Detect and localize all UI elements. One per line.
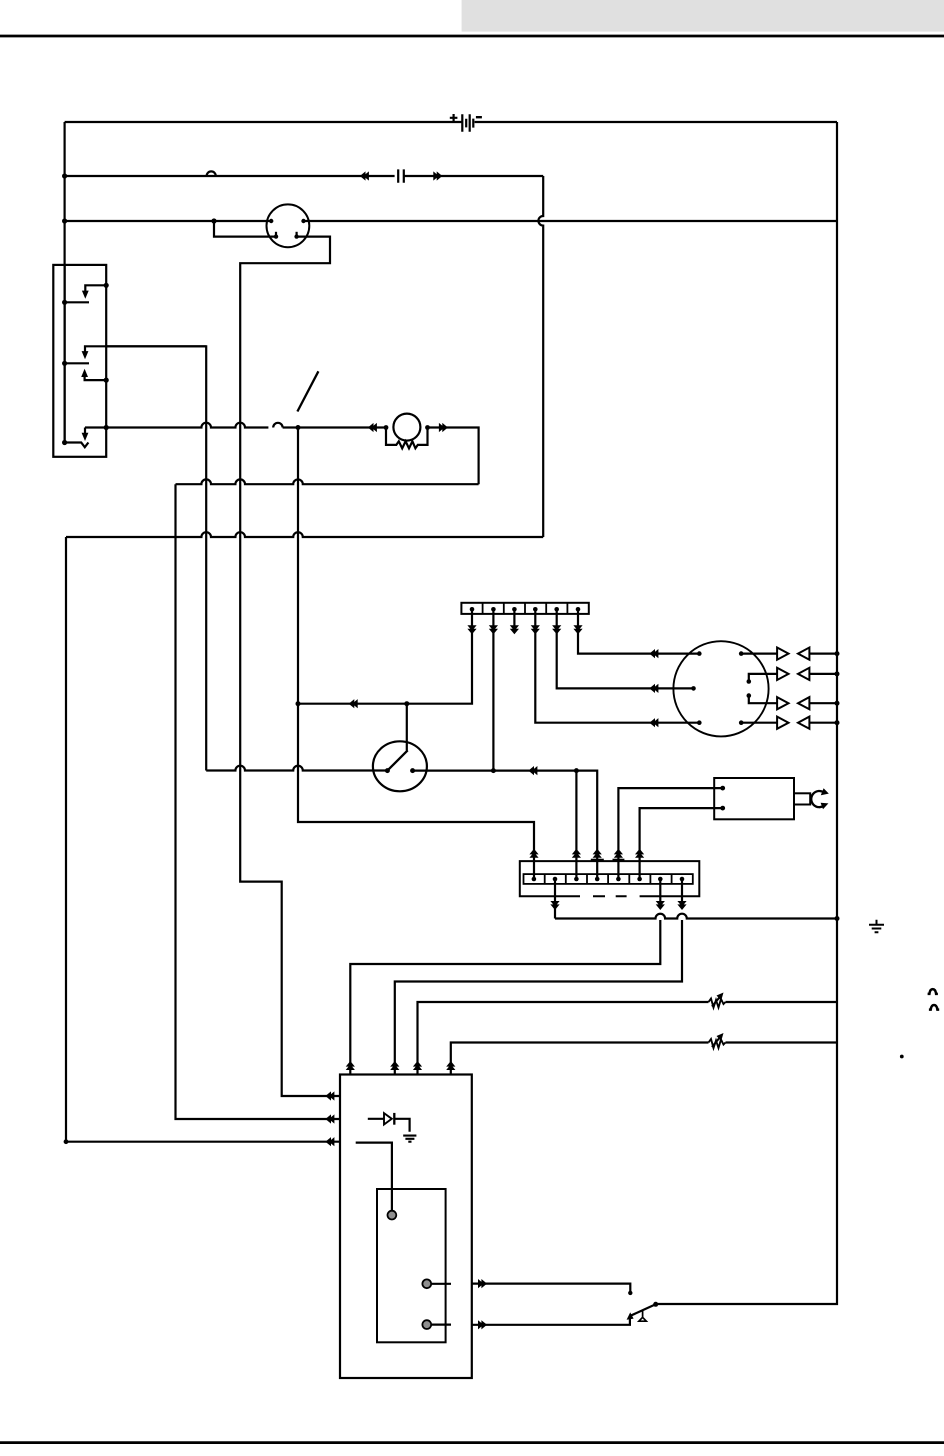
- strip2 cell 2 node: [553, 877, 558, 882]
- fuse 1 arrowhead: [82, 291, 89, 299]
- node fuse1/box edge: [104, 283, 109, 288]
- node cell3 branch: [574, 768, 579, 773]
- box out1 wire: [472, 1284, 631, 1293]
- ignition contact node: [296, 425, 301, 430]
- alternator pin left: [269, 219, 273, 223]
- ignition key lever: [297, 371, 318, 411]
- node pin2/stop line: [491, 768, 496, 773]
- cell8 wire upper: [681, 881, 683, 902]
- stop switch contact left: [385, 768, 390, 773]
- stray caret 2: [929, 1005, 939, 1010]
- cell2 ground wire: [554, 881, 556, 919]
- strip1 pin 2 node: [491, 607, 496, 612]
- terminal strip 2 outline: [520, 861, 700, 896]
- strip2 tick pin4: [591, 859, 604, 861]
- magneto out row1 wire: [741, 652, 777, 654]
- magneto out row2 wire: [749, 674, 777, 682]
- left bus wire: [63, 122, 65, 443]
- fuse 4 female bar: [65, 443, 89, 448]
- connector male row3: [777, 697, 788, 709]
- row3 bus wire: [809, 702, 837, 704]
- node kill lever: [653, 1302, 658, 1307]
- fuse box outline: [53, 265, 106, 457]
- cell3 arrow: [572, 849, 581, 858]
- magneto pin row4 right: [739, 720, 744, 725]
- magneto circle: [673, 641, 768, 736]
- ignition feed drop wire: [538, 176, 543, 537]
- strip1 pin 6 node: [576, 607, 581, 612]
- node fuse4/box edge: [104, 425, 109, 430]
- cell7 wire upper: [659, 881, 661, 902]
- strip1 pin 1 node: [470, 607, 475, 612]
- stop switch contact right: [410, 768, 415, 773]
- battery positive wire: [65, 121, 462, 123]
- relay terminal upper: [720, 786, 725, 791]
- connector half-circle ignition primary: [273, 423, 298, 428]
- node bus row3: [835, 701, 840, 706]
- charge wire left: [65, 220, 272, 222]
- strip1 pin5 wire: [557, 611, 694, 688]
- CDI box outline: [340, 1075, 472, 1379]
- node main feed corner: [64, 1139, 69, 1144]
- cell6 feed wire: [640, 808, 723, 879]
- node lever branch: [404, 701, 409, 706]
- stop switch wire left: [206, 766, 387, 771]
- coil net drop wire: [176, 484, 341, 1119]
- capacitor terminal 1: [388, 1211, 397, 1220]
- main feed drop wire: [66, 537, 340, 1142]
- main feed wire: [66, 532, 543, 537]
- strip1 pin1 arrow: [467, 625, 476, 634]
- battery cell plates: [462, 114, 473, 132]
- connector female row2: [798, 668, 809, 680]
- node bus row4: [835, 720, 840, 725]
- battery minus label: [476, 116, 482, 118]
- inner capacitor box: [377, 1189, 446, 1342]
- fuse2 output wire: [106, 346, 206, 770]
- strip1 pin1 wire: [298, 611, 472, 704]
- row1 bus wire: [809, 652, 837, 654]
- terminal strip 2 cells: [524, 874, 693, 884]
- magneto inner node lower: [747, 693, 752, 698]
- magneto pin row1 left: [697, 651, 702, 656]
- cell3 feed wire: [575, 771, 577, 879]
- strip1 pin2 wire: [492, 611, 494, 771]
- strip1 pin2 arrow: [489, 625, 498, 634]
- page header gray bar: [462, 0, 944, 32]
- capacitor terminal 2 stub: [431, 1283, 451, 1285]
- ignition feed wire: [65, 175, 544, 177]
- sensor line 1 wire: [418, 1002, 838, 1075]
- charge wire right: [304, 220, 838, 222]
- coil return wire: [176, 479, 479, 484]
- ground bus wire: [555, 914, 837, 919]
- relay box outline: [714, 778, 794, 819]
- connector half-circle on ignition feed: [207, 171, 216, 176]
- alternator pin bottom-right: [294, 234, 298, 238]
- node fuse2 bus: [62, 361, 67, 366]
- strip1 pin6 arrow: [573, 625, 582, 634]
- box out1 arrow: [478, 1279, 487, 1288]
- node left-bus/ignition line: [62, 173, 67, 178]
- cell6 arrow: [635, 849, 644, 858]
- strip2 cell 4 node: [595, 877, 600, 882]
- kill switch pivot: [639, 1310, 646, 1321]
- fuse 4 arrowhead: [82, 433, 89, 441]
- magneto pin row1 right: [739, 651, 744, 656]
- box pin4 top arrow: [446, 1061, 455, 1070]
- cell8 wire lower: [395, 920, 682, 1075]
- strip1 pin4 arrow: [531, 625, 540, 634]
- stop switch circle: [373, 741, 427, 791]
- fuse 4 male wire: [84, 428, 86, 434]
- alternator pin bottom-left: [274, 234, 278, 238]
- connector male row4: [777, 717, 788, 729]
- strip1 pin3 wire: [513, 611, 515, 628]
- connector female row1: [798, 648, 809, 660]
- magneto inner node upper: [747, 679, 752, 684]
- diode ground symbol: [403, 1136, 416, 1142]
- stray caret 1: [928, 989, 938, 994]
- node left-bus/charge line: [62, 218, 67, 223]
- strip2 cell 5 node: [616, 877, 621, 882]
- node fuse4 bus: [62, 440, 67, 445]
- box pin1 top arrow: [346, 1061, 355, 1070]
- stop switch feed wire: [406, 704, 408, 751]
- strip1 pin3 arrow: [510, 625, 519, 634]
- connector female row3: [798, 697, 809, 709]
- magneto pin row4 left: [697, 720, 702, 725]
- magneto out row4 wire: [741, 722, 777, 724]
- coil ballast resistor: [386, 428, 428, 449]
- box pin2 left arrow: [325, 1114, 334, 1123]
- terminal strip 1 dividers: [483, 603, 568, 614]
- diode: [384, 1113, 392, 1124]
- relay plug: [794, 793, 810, 804]
- coil output wire: [428, 428, 479, 485]
- fuse 2 female bar: [64, 362, 89, 364]
- magneto pin row2 center: [691, 686, 696, 691]
- alternator output wire: [240, 237, 340, 1096]
- terminal strip 2 dashed bottom: [593, 895, 627, 897]
- box pin1 left arrow: [325, 1091, 334, 1100]
- ignition primary wire 2: [298, 426, 386, 428]
- fuse 2 male wire: [85, 346, 206, 352]
- node fuse3/box edge: [104, 378, 109, 383]
- inline capacitor plates: [398, 169, 404, 182]
- right bus wire: [656, 122, 837, 1304]
- connector male row2: [777, 668, 788, 680]
- connector arrow left primary: [368, 423, 377, 432]
- connector arrow left pin1 line: [349, 699, 358, 708]
- node fuse1 bus: [62, 300, 67, 305]
- ignition primary wire: [85, 423, 268, 428]
- alternator circle: [267, 204, 310, 247]
- kill switch lever: [630, 1304, 656, 1316]
- ignition coil circle: [393, 414, 420, 441]
- strip2 cell 3 node: [574, 877, 579, 882]
- cell1 arrow: [529, 849, 538, 858]
- cell1 feed wire: [298, 428, 534, 880]
- diode anode wire: [368, 1118, 384, 1120]
- strip1 pin4 wire: [535, 611, 699, 723]
- strip2 cell 8 node: [680, 877, 685, 882]
- cell4 arrow: [593, 849, 602, 858]
- capacitor terminal 2: [422, 1279, 431, 1288]
- strip1 pin6 wire: [578, 611, 699, 654]
- cell5 arrow: [614, 849, 623, 858]
- variable resistor 1: [709, 999, 726, 1008]
- terminal strip 2 cell dividers: [545, 874, 672, 884]
- strip2 tick pin5: [613, 859, 625, 861]
- coil terminal left: [384, 425, 389, 430]
- alternator pin right: [301, 219, 305, 223]
- connector arrow right primary: [439, 423, 448, 432]
- box out2 arrow: [478, 1320, 487, 1329]
- cell7 arrow: [656, 901, 665, 910]
- stray dot: [900, 1055, 904, 1059]
- strip2 cell 6 node: [637, 877, 642, 882]
- strip1 pin 4 node: [533, 607, 538, 612]
- node bus row2: [835, 671, 840, 676]
- strip2 cell 1 node: [532, 877, 537, 882]
- footer rule: [0, 1441, 944, 1444]
- terminal strip 1 outline: [461, 603, 588, 614]
- kill lever arrowhead: [627, 1312, 634, 1319]
- connector arrow right on ignition feed: [433, 171, 442, 180]
- box pin2 top arrow: [390, 1061, 399, 1070]
- fuse 3 male wire: [85, 374, 107, 380]
- strip1 pin5 arrow: [552, 625, 561, 634]
- header rule: [0, 35, 944, 38]
- fuse bus wire: [63, 265, 65, 443]
- cell5 feed wire: [618, 788, 722, 879]
- node bus row1: [835, 651, 840, 656]
- cell8 arrow: [677, 901, 686, 910]
- connector arrow left dist row1: [649, 649, 658, 658]
- fuse 1 male wire: [85, 285, 106, 293]
- capacitor terminal 3 stub: [431, 1323, 451, 1325]
- box pin3 top arrow: [413, 1061, 422, 1070]
- capacitor feed wire: [356, 1143, 392, 1211]
- row4 bus wire: [809, 722, 837, 724]
- diode cathode wire: [394, 1119, 409, 1132]
- battery plus label: [450, 114, 458, 122]
- cell7 wire lower: [350, 920, 660, 1075]
- fuse 1 female bar: [65, 301, 89, 303]
- strip1 pin 3 node: [512, 607, 517, 612]
- node charge branch: [211, 218, 216, 223]
- alternator branch wire: [214, 221, 276, 237]
- node ground bus: [835, 916, 840, 921]
- coil terminal right: [425, 425, 430, 430]
- capacitor terminal 3: [422, 1320, 431, 1329]
- node strip1-pin1/ignition bus: [296, 701, 301, 706]
- magneto out row3 wire: [749, 696, 777, 704]
- strip2 cell 7 node: [658, 877, 663, 882]
- box pin3 left arrow: [325, 1137, 334, 1146]
- row2 bus wire: [809, 673, 837, 675]
- fuse 3 arrowhead: [81, 369, 88, 377]
- stop switch wire right: [413, 771, 598, 879]
- connector arrow left dist row2: [649, 684, 658, 693]
- strip1 pin 5 node: [554, 607, 559, 612]
- sensor line 2 wire: [451, 1043, 837, 1075]
- relay terminal lower: [720, 806, 725, 811]
- connector arrow left dist row4: [649, 718, 658, 727]
- stop switch lever: [387, 750, 407, 770]
- variable resistor 2: [709, 1039, 726, 1048]
- cell2 arrow: [550, 901, 559, 910]
- relay rotation symbol: [811, 791, 824, 807]
- battery negative wire: [475, 121, 837, 123]
- connector arrow left on ignition feed: [360, 171, 369, 180]
- connector male row1: [777, 648, 788, 660]
- node kill contact upper: [628, 1291, 632, 1295]
- connector female row4: [798, 717, 809, 729]
- ground symbol: [869, 920, 884, 933]
- connector arrow left stop switch: [528, 766, 537, 775]
- box out2 wire: [472, 1316, 630, 1324]
- fuse 2 arrowhead: [82, 351, 89, 359]
